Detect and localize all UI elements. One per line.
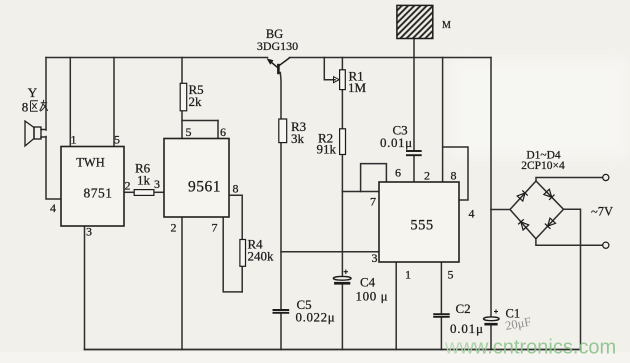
wire 9561 pin 7 drop and jog (223, 217, 242, 292)
resistor R6 (134, 190, 154, 196)
potentiometer R1 (340, 70, 346, 90)
wire R1 to R2 (341, 90, 343, 129)
transistor Q1 BG (268, 58, 290, 75)
svg-text:0.022μ: 0.022μ (296, 310, 336, 325)
svg-text:4: 4 (50, 201, 56, 215)
terminal top AC (603, 174, 609, 180)
terminal bottom AC (603, 242, 609, 248)
svg-text:240k: 240k (248, 249, 275, 264)
diode D1 (517, 190, 528, 201)
wire transistor base drop to R3 (279, 73, 282, 120)
wire R1 body top lead (341, 58, 343, 70)
svg-text:7: 7 (370, 195, 376, 209)
capacitor C2 (433, 314, 450, 317)
wire speaker top stub (41, 129, 46, 131)
resistor R5 (180, 83, 187, 111)
svg-text:M: M (442, 20, 451, 31)
wire R2 bottom lead (341, 155, 343, 192)
wire TWH pin 3 drop (84, 226, 86, 350)
svg-text:2: 2 (424, 169, 430, 183)
wire motor lead to C3 (413, 39, 415, 151)
wire C3 to 555 pin 2 (413, 156, 415, 182)
svg-text:~7V: ~7V (591, 205, 613, 219)
svg-text:0.01μ: 0.01μ (380, 135, 413, 150)
svg-text:1M: 1M (348, 80, 367, 95)
svg-text:TWH: TWH (76, 156, 104, 170)
svg-text:C4: C4 (360, 275, 376, 290)
svg-text:2k: 2k (189, 94, 203, 109)
svg-text:8: 8 (451, 169, 457, 183)
svg-text:8: 8 (233, 182, 239, 196)
capacitor C5 (273, 310, 290, 313)
svg-text:2CP10×4: 2CP10×4 (521, 160, 565, 172)
wire R5 lower lead to 9561 pin 5 (181, 111, 183, 139)
svg-text:5: 5 (114, 133, 120, 147)
svg-text:2: 2 (171, 221, 177, 235)
diode D3 (545, 218, 556, 229)
svg-text:8: 8 (22, 100, 29, 115)
svg-text:8751: 8751 (84, 186, 113, 201)
wire TWH pin 2 to R6 (124, 191, 134, 193)
wire bridge top AC lead (536, 178, 603, 182)
diode D2 (544, 189, 555, 200)
capacitor C1 electrolytic (484, 317, 500, 321)
svg-text:6: 6 (220, 125, 226, 139)
svg-text:0.01μ: 0.01μ (450, 321, 484, 336)
IC 555 (379, 182, 459, 262)
wire top rail left segment (46, 57, 268, 59)
wire 555 pin 7 (342, 191, 379, 193)
wire C2 bottom lead (440, 317, 442, 349)
svg-text:91k: 91k (317, 142, 337, 157)
svg-text:7: 7 (212, 221, 218, 235)
svg-text:6: 6 (395, 166, 401, 180)
svg-text:3: 3 (86, 225, 92, 239)
IC 9561 (164, 139, 229, 218)
C1 plus mark (494, 310, 498, 314)
svg-text:2: 2 (125, 179, 131, 193)
wire 555 pin 4 hook (443, 147, 468, 200)
wire bridge diamond outline (510, 181, 564, 239)
svg-text:Y: Y (28, 85, 38, 100)
wire R4 top lead to 9561 pin 8 (229, 195, 242, 239)
svg-text:1k: 1k (137, 173, 151, 188)
wire bridge tap to rail (491, 209, 510, 211)
wire 9561 pin 2 drop (181, 217, 183, 350)
wire bridge bottom AC lead (536, 239, 603, 245)
wire R6 to 9561 pin 3 (154, 191, 164, 193)
resistor R3 (279, 119, 287, 143)
R1 wiper arrowhead (334, 77, 340, 83)
motor M (397, 5, 433, 38)
resistor R4 (240, 240, 246, 267)
wire 9561 pin 6 stub (217, 121, 219, 139)
svg-text:3: 3 (154, 177, 160, 191)
diode D4 (518, 219, 529, 230)
svg-text:5: 5 (448, 268, 454, 282)
wire C4 top lead (341, 192, 343, 277)
svg-text:www.cntronics.com: www.cntronics.com (444, 337, 616, 359)
svg-text:3: 3 (372, 251, 378, 265)
svg-text:C2: C2 (456, 301, 471, 316)
wire 555 pin 8 riser (442, 58, 444, 183)
light patch bottom (0, 352, 630, 363)
wire bottom ground rail (85, 349, 581, 351)
wire 555 pin 6 loop (361, 164, 387, 192)
wire 555 pin 3 to node (281, 251, 379, 253)
wire left drop from rail to speaker (45, 58, 47, 131)
wire speaker to TWH pin 4 (46, 137, 61, 200)
wire TWH pin 5 riser (113, 58, 115, 147)
speaker Y (25, 121, 41, 146)
resistor R2 (340, 129, 346, 155)
svg-text:100 μ: 100 μ (356, 289, 389, 304)
wire C1 bottom lead (490, 326, 492, 350)
svg-text:4: 4 (469, 207, 475, 221)
svg-text:3DG130: 3DG130 (257, 39, 298, 53)
capacitor C4 electrolytic (333, 276, 351, 280)
wire R3 bottom through node to C5 (280, 143, 282, 310)
light patch top right (450, 58, 630, 158)
wire right rail drop to C1 (490, 58, 492, 317)
transistor emitter arrowhead (267, 58, 274, 64)
wire TWH pin 1 riser (69, 58, 71, 147)
wire C5 bottom lead (280, 314, 282, 350)
wire speaker bottom stub (41, 136, 46, 138)
wire 555 pin 5 to C2 (440, 262, 442, 314)
wire R4 bottom lead (241, 266, 243, 292)
wire R1 wiper arm (324, 58, 335, 80)
wire bridge right vertex to ground (564, 209, 581, 349)
svg-text:3k: 3k (291, 131, 305, 146)
capacitor C3 (406, 151, 422, 155)
svg-text:1: 1 (405, 268, 411, 282)
wire bar pin5 to pin6 of 9561 (182, 120, 218, 122)
svg-text:555: 555 (410, 218, 433, 234)
wire top rail right segment (290, 57, 492, 59)
wire C4 bottom lead (341, 285, 343, 350)
wire R5 upper lead (181, 58, 183, 84)
svg-text:5: 5 (186, 125, 192, 139)
IC TWH8751 (61, 147, 124, 227)
svg-text:9561: 9561 (188, 179, 221, 196)
C4 plus mark (344, 270, 348, 275)
svg-text:1: 1 (71, 133, 77, 147)
wire 555 pin 1 drop (395, 262, 397, 350)
